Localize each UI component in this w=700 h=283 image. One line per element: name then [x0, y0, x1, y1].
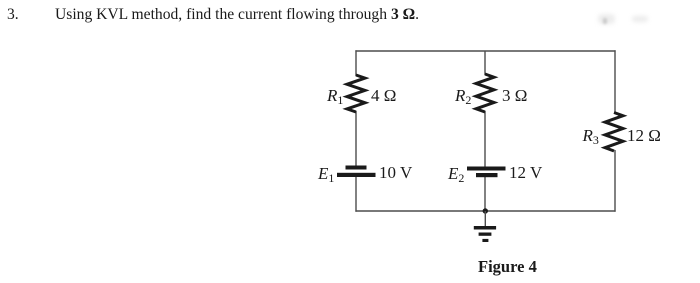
label R2 — [455, 87, 471, 104]
label R1 — [327, 87, 343, 104]
resistor R3 — [605, 113, 623, 152]
wire left branch middle — [355, 111, 357, 166]
wire middle branch lower — [484, 176, 486, 211]
resistor R1 — [347, 75, 365, 112]
faint smudge top right 2 — [632, 16, 648, 22]
faint smudge dark speck — [603, 18, 607, 24]
wire right branch upper — [614, 50, 616, 113]
wire bottom horizontal — [355, 210, 615, 212]
value 10 V — [379, 164, 412, 181]
value 3 ohm — [502, 87, 527, 104]
resistor R2 — [476, 74, 494, 112]
wire left branch lower — [355, 176, 357, 212]
label E1 — [318, 165, 334, 182]
problem statement — [55, 7, 419, 23]
battery E2 — [467, 167, 506, 178]
problem number — [7, 7, 19, 23]
node junction dot — [483, 208, 488, 213]
wire top horizontal — [355, 50, 615, 52]
value 12 V — [509, 164, 542, 181]
label R3 — [583, 127, 599, 144]
wire middle branch middle — [484, 111, 486, 167]
value 4 ohm — [371, 87, 396, 104]
wire left branch upper — [355, 50, 357, 76]
label E2 — [448, 165, 464, 182]
value 12 ohm — [627, 127, 661, 144]
ground — [474, 211, 496, 242]
battery E1 — [337, 166, 376, 178]
faint smudge top right 1 — [598, 14, 615, 24]
caption Figure 4 — [478, 259, 537, 276]
wire right branch lower — [614, 150, 616, 212]
wire middle branch upper — [484, 51, 486, 75]
